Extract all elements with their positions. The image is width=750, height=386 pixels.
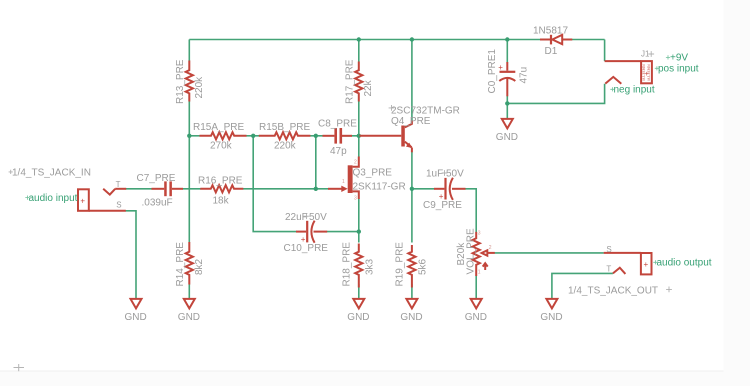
- svg-text:R14_PRE: R14_PRE: [175, 242, 186, 287]
- svg-text:GND: GND: [400, 312, 422, 323]
- wire pot bottom to GND: [475, 276, 477, 299]
- svg-text:+9V: +9V: [670, 52, 688, 63]
- capacitor C7_PRE .039uF: [137, 173, 184, 209]
- svg-text:1/4_TS_JACK_IN: 1/4_TS_JACK_IN: [12, 168, 91, 179]
- wire pot wiper to out jack S: [495, 252, 604, 254]
- connector 1/4_TS_JACK_OUT (audio output): [568, 245, 712, 296]
- svg-text:pos input: pos input: [658, 64, 699, 75]
- svg-text:R18_PRE: R18_PRE: [342, 242, 353, 287]
- wire node2 down to C10 row: [253, 136, 296, 232]
- sheet origin cross: [14, 364, 25, 371]
- svg-text:R15B_PRE: R15B_PRE: [259, 122, 310, 133]
- wire node3 to C8: [316, 135, 323, 137]
- transistor Q4_PRE 2SC732TM-GR (NPN): [360, 105, 460, 152]
- svg-text:C8_PRE: C8_PRE: [318, 119, 357, 130]
- wire R18 top: [358, 232, 360, 243]
- svg-text:T: T: [606, 265, 611, 274]
- wire C0 top from rail: [506, 40, 508, 63]
- svg-text:GND: GND: [347, 312, 369, 323]
- svg-text:8k2: 8k2: [194, 258, 205, 275]
- svg-text:22uF: 22uF: [285, 212, 308, 223]
- svg-text:R16_PRE: R16_PRE: [198, 176, 243, 187]
- wire R15A to node2: [246, 135, 253, 137]
- wire jack T to C7: [126, 188, 153, 190]
- svg-text:270k: 270k: [210, 141, 233, 152]
- transistor Q3_PRE 2SK117-GR (N-JFET): [328, 157, 406, 202]
- svg-text:3: 3: [478, 231, 481, 237]
- svg-text:R17_PRE: R17_PRE: [345, 59, 356, 104]
- svg-text:2SK117-GR: 2SK117-GR: [353, 182, 406, 193]
- wire R18 bottom to GND: [358, 284, 360, 299]
- svg-text:+: +: [644, 260, 649, 269]
- svg-text:GND: GND: [465, 312, 487, 323]
- svg-text:C0_PRE1: C0_PRE1: [487, 49, 498, 94]
- wire neg return row: [507, 84, 604, 104]
- wire R13 top: [188, 40, 190, 62]
- svg-text:22k: 22k: [363, 79, 374, 96]
- wire mid row node1 to R15A: [189, 135, 200, 137]
- wire R19 top: [411, 189, 413, 243]
- svg-text:T: T: [116, 180, 121, 189]
- node C0 bottom/neg return: [505, 101, 509, 105]
- wire Q4 collector up to rail: [411, 40, 413, 121]
- svg-text:R19_PRE: R19_PRE: [395, 242, 406, 287]
- node Q4 emitter/C9/R19: [410, 187, 414, 191]
- svg-text:50V: 50V: [446, 168, 464, 179]
- sheet bottom margin: [0, 371, 750, 386]
- svg-text:audio input: audio input: [29, 193, 78, 204]
- connector J1 (power input): [605, 50, 699, 96]
- wire R17 top: [358, 40, 360, 63]
- svg-text:1: 1: [342, 179, 345, 185]
- resistor R15B_PRE 220k: [259, 122, 311, 152]
- node R13/R15A/R14: [187, 134, 191, 138]
- wire top rail right segment (after diode): [572, 39, 605, 41]
- svg-text:VOL_PRE: VOL_PRE: [466, 228, 477, 274]
- ground (VOL_PRE): [465, 299, 487, 323]
- wire C9 left: [412, 188, 435, 190]
- wire C10 to source node: [327, 231, 359, 233]
- wire R15B to node3: [310, 135, 316, 137]
- svg-text:+: +: [80, 196, 85, 205]
- wire node4 down to Q3 drain: [358, 136, 360, 157]
- svg-text:1/4_TS_JACK_OUT: 1/4_TS_JACK_OUT: [568, 286, 658, 297]
- svg-text:Q4_PRE: Q4_PRE: [391, 116, 431, 127]
- svg-text:50V: 50V: [309, 212, 327, 223]
- wire J1 pos drop: [604, 40, 606, 62]
- svg-text:1N5817: 1N5817: [533, 26, 568, 37]
- wire C0 bottom to node: [506, 96, 508, 104]
- resistor R17_PRE 22k: [345, 59, 375, 104]
- node R15A/R15B/C10 branch: [251, 134, 255, 138]
- wire R14 bottom to GND: [188, 284, 190, 299]
- svg-text:+: +: [498, 63, 503, 72]
- ground (audio output T): [540, 299, 562, 323]
- connector 1/4_TS_JACK_IN (audio input): [9, 168, 127, 211]
- wire C8 to node4: [342, 135, 360, 137]
- svg-text:.039uF: .039uF: [142, 198, 173, 209]
- sheet right margin: [724, 0, 750, 386]
- svg-text:3: 3: [354, 196, 357, 202]
- svg-text:5k6: 5k6: [418, 258, 429, 275]
- svg-text:GND: GND: [178, 312, 200, 323]
- ground (R14): [178, 299, 200, 323]
- resistor R14_PRE 8k2: [175, 242, 205, 287]
- wire Q3 source down to node: [358, 199, 360, 232]
- resistor R18_PRE 3k3: [342, 242, 376, 288]
- wire R13 bottom to mid node: [188, 101, 190, 136]
- svg-text:47p: 47p: [330, 146, 347, 157]
- wire R16 to gate node to Q3 gate: [243, 188, 329, 190]
- wire out jack T to GND: [552, 273, 613, 299]
- diode D1 1N5817: [533, 26, 572, 58]
- svg-text:2: 2: [354, 160, 357, 166]
- svg-text:S: S: [606, 245, 611, 254]
- svg-text:GND: GND: [540, 312, 562, 323]
- ground (C0_PRE1): [496, 119, 518, 143]
- resistor R13_PRE 220k: [175, 59, 205, 104]
- resistor R16_PRE 18k: [198, 176, 243, 207]
- wire C7 to R16: [183, 188, 202, 190]
- wire C9 right to pot top: [465, 189, 476, 232]
- svg-text:Q3_PRE: Q3_PRE: [353, 168, 393, 179]
- wire C0 node to GND: [506, 103, 508, 119]
- svg-text:C10_PRE: C10_PRE: [284, 243, 329, 254]
- wire R17 bottom to node4: [358, 101, 360, 136]
- node rail/C0: [505, 37, 509, 41]
- svg-text:2: 2: [489, 245, 492, 251]
- svg-text:R13_PRE: R13_PRE: [175, 59, 186, 104]
- svg-text:GND: GND: [496, 132, 518, 143]
- wire node2 to R15B: [253, 135, 260, 137]
- capacitor C10_PRE 22uF 50V (polarized): [284, 212, 329, 254]
- resistor R15A_PRE 270k: [193, 122, 247, 152]
- svg-text:+: +: [644, 71, 648, 78]
- ground (audio input S): [125, 299, 147, 323]
- svg-text:C7_PRE: C7_PRE: [137, 173, 176, 184]
- svg-text:3k3: 3k3: [365, 258, 376, 275]
- svg-text:1uF: 1uF: [426, 168, 443, 179]
- capacitor C0_PRE1 47u (polarized, vertical): [487, 49, 530, 97]
- capacitor C9_PRE 1uF 50V (polarized): [423, 168, 466, 211]
- resistor R19_PRE 5k6: [395, 242, 429, 288]
- svg-text:220k: 220k: [274, 141, 297, 152]
- wire node3 down to gate row: [315, 136, 317, 189]
- node R15B/C8 branch: [314, 134, 318, 138]
- svg-text:audio output: audio output: [657, 258, 712, 269]
- wire jack S down to GND: [126, 211, 137, 299]
- svg-text:R15A_PRE: R15A_PRE: [193, 122, 244, 133]
- node C10/Q3 source/R18: [357, 229, 361, 233]
- svg-text:D1: D1: [545, 46, 558, 57]
- wire Q4 emitter down to node: [411, 152, 413, 189]
- svg-text:C9_PRE: C9_PRE: [423, 200, 462, 211]
- svg-text:18k: 18k: [213, 195, 230, 206]
- svg-text:GND: GND: [125, 312, 147, 323]
- wire R19 bottom to GND: [411, 284, 413, 299]
- svg-text:neg input: neg input: [614, 85, 655, 96]
- wire R14 top: [188, 136, 190, 243]
- svg-text:S: S: [116, 200, 121, 209]
- svg-text:2SC732TM-GR: 2SC732TM-GR: [391, 106, 460, 117]
- node rail/Q4 collector: [410, 37, 414, 41]
- svg-text:220k: 220k: [194, 76, 205, 99]
- ground (R19): [400, 299, 422, 323]
- ground (R18): [347, 299, 369, 323]
- node R16/Q3 gate: [314, 187, 318, 191]
- svg-text:1: 1: [478, 270, 481, 276]
- wire top rail left segment: [189, 39, 540, 41]
- node C8/R17/Q4 base/Q3 drain: [357, 134, 361, 138]
- svg-text:47u: 47u: [519, 67, 530, 84]
- potentiometer VOL_PRE B20k: [456, 228, 495, 276]
- capacitor C8_PRE 47p: [318, 119, 357, 157]
- node rail/R17: [357, 37, 361, 41]
